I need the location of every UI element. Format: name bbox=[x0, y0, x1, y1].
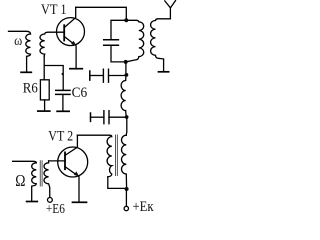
ground G3 bbox=[159, 71, 169, 73]
wire T3 bottom rail bbox=[108, 177, 127, 189]
coil tank primary bbox=[126, 20, 144, 62]
svg-text:+Е6: +Е6 bbox=[46, 201, 65, 216]
node J4 bbox=[125, 115, 129, 119]
wire C6 to ground bbox=[62, 95, 64, 111]
VT1 base bar bbox=[63, 25, 65, 40]
node J2 bbox=[124, 60, 128, 64]
wire collector rail to tank bbox=[76, 7, 127, 20]
capacitor coupling top bbox=[89, 71, 91, 80]
coil T2 left winding bbox=[32, 163, 37, 186]
antenna bbox=[165, 1, 176, 19]
svg-text:VT 1: VT 1 bbox=[41, 2, 67, 18]
terminal +Eb bbox=[48, 198, 53, 203]
transistor VT1 bbox=[57, 18, 85, 46]
wire input open end top-left bbox=[9, 31, 31, 34]
ground G7 bbox=[73, 201, 87, 203]
wire tank bottom left bbox=[111, 46, 126, 62]
coil tank secondary bbox=[151, 19, 171, 71]
VT2 base lead bbox=[49, 160, 65, 162]
VT1 emitter bbox=[64, 36, 76, 67]
wire L1a to ground bbox=[26, 57, 28, 72]
ground G2 bbox=[70, 68, 82, 70]
wire J4 down to T3 bbox=[125, 117, 128, 135]
svg-text:R6: R6 bbox=[23, 80, 38, 96]
wire J5 to +Ek terminal bbox=[125, 189, 127, 206]
terminal +Ek bbox=[124, 206, 128, 210]
svg-text:ω: ω bbox=[14, 34, 22, 49]
svg-text:Ω: Ω bbox=[15, 171, 25, 190]
wire J2 to J3 bbox=[125, 62, 127, 75]
wire T2 left to ground bbox=[31, 186, 33, 200]
coil L1a antenna-input primary bbox=[26, 34, 31, 56]
VT2 base bar bbox=[64, 152, 66, 169]
transistor VT2 bbox=[58, 147, 88, 177]
coil choke middle bbox=[121, 75, 126, 117]
capacitor coupling bottom bbox=[90, 113, 92, 121]
ground G6 bbox=[27, 201, 38, 203]
wire R6 to ground bbox=[44, 100, 46, 110]
VT1 emitter arrow bbox=[71, 41, 76, 46]
core T2 bbox=[40, 161, 42, 186]
node J3 bbox=[125, 73, 129, 77]
ground G1 bbox=[21, 71, 31, 73]
VT1 collector bbox=[64, 7, 76, 27]
resistor R6 bbox=[40, 80, 49, 100]
ground G4 bbox=[38, 110, 50, 112]
node J1 bbox=[124, 18, 128, 22]
node J5 bbox=[125, 187, 129, 191]
VT2 emitter arrow bbox=[74, 171, 80, 176]
wire L1b bottom to R6 bbox=[43, 56, 45, 80]
wire branch to C6 bbox=[44, 66, 63, 91]
coil T3 right winding bbox=[122, 135, 127, 189]
svg-text:C6: C6 bbox=[72, 85, 88, 101]
VT2 emitter bbox=[65, 167, 79, 202]
wire tank top left bbox=[111, 20, 126, 39]
ground G5 bbox=[57, 110, 69, 112]
node small junction bbox=[62, 73, 64, 75]
coil T3 left winding bbox=[77, 135, 111, 177]
capacitor tank bbox=[104, 40, 119, 46]
wire T2 input bbox=[13, 161, 37, 163]
coil T2 right winding bbox=[44, 161, 50, 198]
svg-text:VT 2: VT 2 bbox=[48, 128, 73, 144]
coil L1b secondary to VT1 base bbox=[40, 32, 64, 56]
svg-text:+Ек: +Ек bbox=[133, 199, 155, 215]
VT2 collector bbox=[65, 135, 77, 155]
capacitor C6 bbox=[56, 90, 70, 94]
core T3 bbox=[116, 135, 118, 176]
